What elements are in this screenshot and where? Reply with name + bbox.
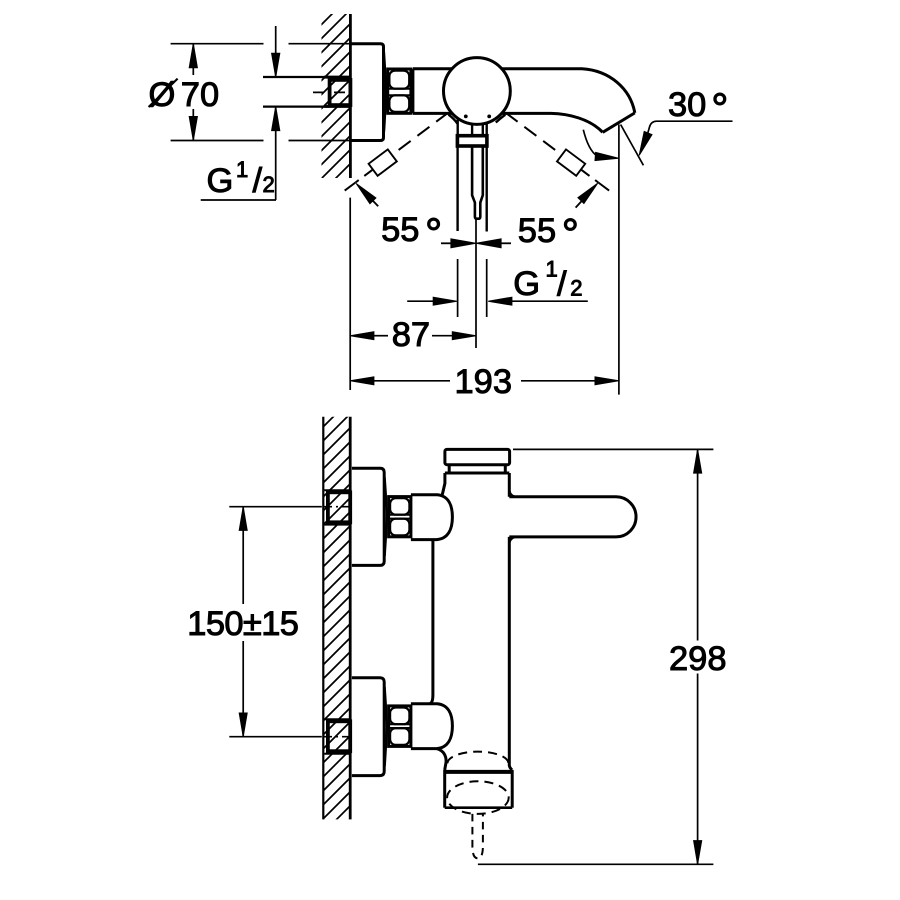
spout (top view) bbox=[502, 69, 635, 113]
dimension 298 bbox=[697, 449, 699, 640]
spout tip extension line bbox=[618, 125, 620, 395]
handle centerline bbox=[475, 220, 477, 349]
55° arc arrow left bbox=[361, 189, 378, 207]
55° arc arrow right bbox=[576, 189, 593, 208]
lower union nut (side view) bbox=[389, 706, 411, 747]
upper connection cone bbox=[411, 495, 453, 540]
lower connection cone bbox=[411, 704, 453, 749]
svg-text:87: 87 bbox=[392, 316, 430, 354]
dimension 87 bbox=[373, 335, 388, 337]
svg-text:/: / bbox=[557, 265, 567, 303]
screw dots on body bbox=[464, 115, 468, 119]
svg-text:70: 70 bbox=[181, 76, 219, 114]
water drip (dashed) bbox=[472, 814, 483, 858]
svg-text:/: / bbox=[253, 162, 263, 200]
dimension G1/2 (outlet) bbox=[407, 300, 434, 302]
30° leader bbox=[648, 121, 733, 133]
wall (side view) bbox=[322, 417, 324, 820]
dimension Ø70 bbox=[192, 44, 194, 75]
extension lines 150±15 bbox=[229, 506, 321, 508]
body right edge bbox=[508, 473, 511, 497]
30° arc with arrow bbox=[583, 130, 597, 156]
svg-text:2: 2 bbox=[263, 172, 275, 197]
wall (top view) bbox=[349, 14, 352, 178]
svg-text:55: 55 bbox=[518, 212, 556, 250]
G1/2 extension lines lower bbox=[457, 259, 459, 317]
spout outlet cup (side view) bbox=[443, 770, 446, 808]
body upper-left edge bbox=[442, 473, 445, 495]
extension lines 298 bbox=[513, 448, 713, 450]
wall fitting (top view) bbox=[330, 80, 351, 105]
lever swivel position left (dashed) bbox=[392, 113, 448, 155]
wall extension line (top view dims) bbox=[349, 198, 351, 390]
lever swivel position right (dashed) bbox=[506, 113, 562, 155]
top cap (side view) bbox=[445, 449, 510, 464]
svg-text:193: 193 bbox=[455, 363, 513, 401]
svg-text:°: ° bbox=[562, 211, 579, 259]
svg-text:298: 298 bbox=[669, 640, 727, 678]
hidden ball joint (dashed) bbox=[447, 752, 508, 764]
svg-text:°: ° bbox=[711, 85, 728, 133]
lower outlet tube sides (top view) bbox=[456, 146, 458, 231]
lower wall fitting (side view) bbox=[324, 718, 350, 720]
dimension Ø70 extension lines bbox=[171, 43, 264, 45]
cartridge body circle (top view) bbox=[444, 58, 511, 125]
svg-text:1: 1 bbox=[236, 157, 248, 182]
svg-text:30: 30 bbox=[668, 86, 706, 124]
lever handle (side view) bbox=[509, 497, 636, 537]
body outline below lower cone bbox=[437, 749, 446, 770]
wall hatching (top view) bbox=[308, 0, 352, 220]
svg-text:1: 1 bbox=[546, 256, 558, 281]
55° apex arrows (bowtie) bbox=[451, 239, 476, 248]
centerline of pipe (top view) bbox=[313, 91, 350, 93]
body left edge bbox=[430, 540, 433, 704]
svg-text:55: 55 bbox=[381, 211, 419, 249]
dimension 193 bbox=[373, 380, 450, 382]
svg-text:G: G bbox=[207, 162, 234, 200]
svg-text:150±15: 150±15 bbox=[187, 605, 298, 643]
upper union nut (side view) bbox=[389, 497, 411, 537]
spout axis line (30°) bbox=[621, 125, 644, 166]
handle collar (top view) bbox=[457, 136, 487, 146]
wall hatching (side view) bbox=[310, 395, 355, 860]
upper wall fitting (side view) bbox=[324, 489, 350, 491]
svg-text:2: 2 bbox=[570, 276, 582, 301]
union nut (top view) bbox=[388, 69, 411, 113]
escutcheon (top view) bbox=[351, 44, 384, 141]
lever shaft (top view) bbox=[472, 146, 483, 219]
hidden aerator (dashed ellipse) bbox=[447, 781, 509, 814]
neck ring bbox=[448, 465, 451, 473]
handle stem (top view) bbox=[449, 115, 458, 124]
upper escutcheon (side view) bbox=[352, 468, 384, 565]
body tube (top view) bbox=[413, 67, 452, 70]
dimension G1/2 (supply pipe) bbox=[275, 26, 277, 77]
svg-text:°: ° bbox=[425, 210, 442, 258]
lower escutcheon (side view) bbox=[352, 678, 384, 776]
dimension 150±15 bbox=[242, 507, 244, 604]
supply pipe (top view) bbox=[263, 76, 330, 78]
svg-text:G: G bbox=[513, 265, 540, 303]
